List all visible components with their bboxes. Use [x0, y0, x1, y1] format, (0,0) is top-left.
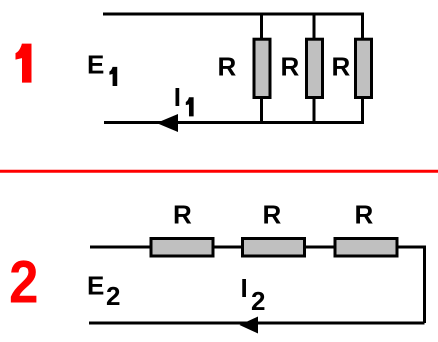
svg-text:E: E: [87, 50, 104, 80]
svg-text:2: 2: [106, 281, 120, 311]
wire top of circuit 1: [103, 13, 363, 16]
resistor R (series 1): [151, 239, 213, 257]
current I1 arrow head: [157, 114, 179, 132]
wire from series resistor 3 to right corner and down: [397, 247, 425, 323]
wire left lead of circuit 2: [90, 246, 151, 249]
svg-text:R: R: [281, 52, 300, 82]
svg-text:R: R: [263, 200, 282, 230]
wire from resistor R (parallel 3) to bottom wire: [361, 97, 364, 124]
resistor R (series 3): [335, 239, 397, 257]
wire drop to resistor R (parallel 1): [260, 14, 263, 39]
resistor R (parallel 2): [307, 39, 323, 97]
circuit 1 number label: [16, 44, 32, 83]
current I1 subscript: [186, 97, 194, 116]
wire bottom of circuit 2: [89, 322, 425, 325]
wire between series resistors 1 and 2: [213, 246, 243, 249]
wire bottom of circuit 1: [104, 121, 363, 124]
resistor R (parallel 3): [356, 39, 372, 97]
svg-text:R: R: [173, 200, 192, 230]
resistor R (parallel 1): [254, 39, 270, 97]
wire from resistor R (parallel 1) to bottom wire: [260, 97, 263, 123]
current I2 arrow head: [240, 317, 259, 334]
resistor R (series 2): [243, 239, 305, 257]
svg-text:2: 2: [9, 249, 39, 316]
red separator line: [0, 170, 438, 173]
svg-text:R: R: [332, 52, 351, 82]
node E1 subscript: [109, 67, 117, 86]
svg-text:R: R: [355, 200, 374, 230]
svg-text:I: I: [241, 273, 248, 303]
wire drop to resistor R (parallel 3): [361, 13, 364, 40]
wire between series resistors 2 and 3: [305, 246, 337, 249]
svg-text:2: 2: [251, 286, 265, 316]
svg-text:I: I: [174, 82, 181, 112]
svg-text:R: R: [218, 52, 237, 82]
svg-text:E: E: [87, 270, 104, 300]
wire drop to resistor R (parallel 2): [313, 14, 316, 39]
wire from resistor R (parallel 2) to bottom wire: [313, 97, 316, 123]
